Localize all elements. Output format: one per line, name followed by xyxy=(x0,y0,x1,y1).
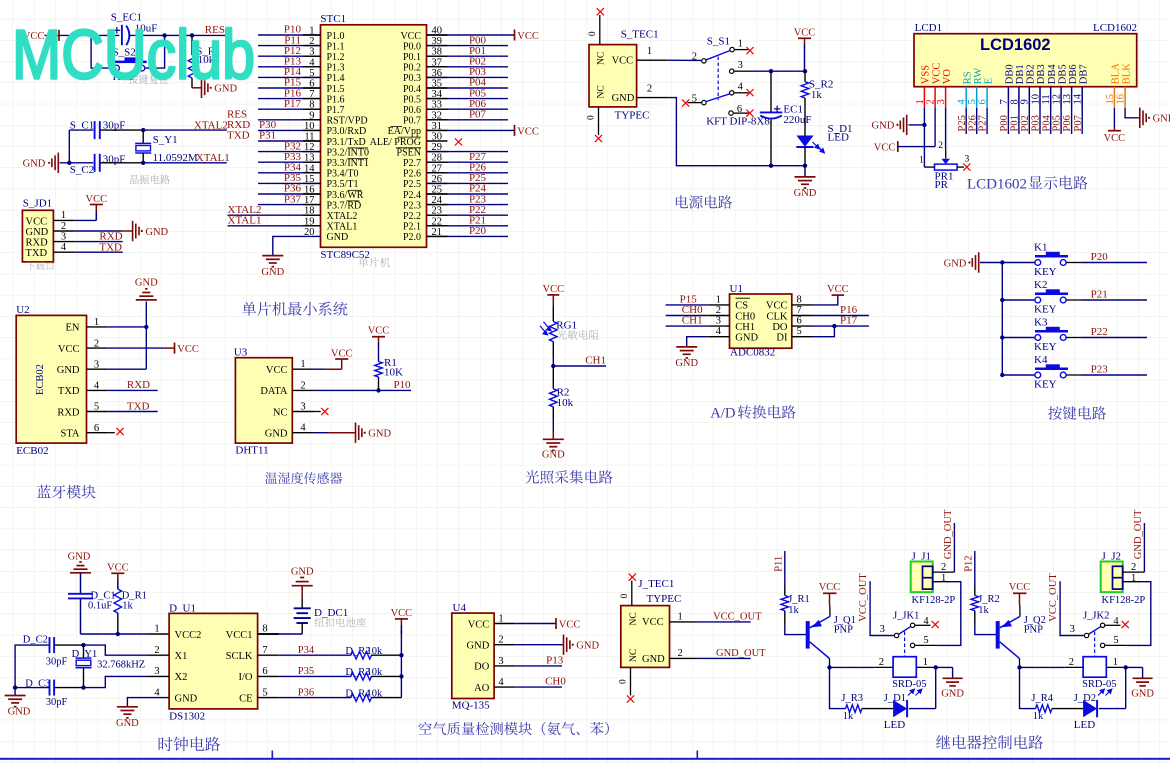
wire xyxy=(1081,108,1083,134)
wire pin3 xyxy=(108,368,147,370)
junction xyxy=(769,164,773,168)
junction xyxy=(1000,373,1004,377)
svg-text:DB1: DB1 xyxy=(1015,64,1026,84)
svg-text:P2.7: P2.7 xyxy=(403,158,421,169)
svg-text:NC: NC xyxy=(597,85,607,98)
svg-text:P05: P05 xyxy=(1052,115,1063,131)
text clock title xyxy=(159,737,220,752)
power port VCC (pullups) xyxy=(395,618,408,620)
svg-text:VCC_OUT: VCC_OUT xyxy=(858,573,869,622)
power port VCC (U2) xyxy=(174,343,176,354)
wire base xyxy=(785,625,806,634)
wire GND_OUT xyxy=(697,657,750,659)
svg-text:X2: X2 xyxy=(175,672,188,683)
svg-text:GND_OUT: GND_OUT xyxy=(716,648,766,659)
wire xyxy=(427,98,509,100)
junction xyxy=(162,33,166,37)
text light title xyxy=(525,470,612,484)
svg-text:VCC: VCC xyxy=(26,216,48,227)
text keys title xyxy=(1048,406,1106,420)
svg-text:BLK: BLK xyxy=(1121,63,1132,84)
svg-text:VCC: VCC xyxy=(1009,582,1031,593)
switch blade 2-1 xyxy=(706,51,730,60)
wire xyxy=(1002,262,1035,264)
svg-text:VCC: VCC xyxy=(827,284,849,295)
pin5 wire xyxy=(1105,644,1127,646)
wire xyxy=(427,193,509,195)
junction xyxy=(1017,665,1021,669)
svg-text:RG1: RG1 xyxy=(556,319,577,331)
power port VCC (backlight) xyxy=(1108,130,1121,132)
wire pin2 to ground xyxy=(515,644,561,646)
wire LED to relay pin1 xyxy=(1099,708,1126,710)
wire xyxy=(258,129,321,131)
wire VSS down xyxy=(923,108,925,167)
svg-text:RS: RS xyxy=(962,71,973,84)
svg-text:GND: GND xyxy=(327,232,349,243)
svg-text:P0.3: P0.3 xyxy=(403,73,421,84)
pin30 no-connect xyxy=(427,140,448,142)
svg-text:J_TEC1: J_TEC1 xyxy=(638,578,674,590)
junction xyxy=(1000,335,1004,339)
junction xyxy=(551,364,555,368)
svg-text:P3.0/RxD: P3.0/RxD xyxy=(327,126,367,137)
svg-text:TXD: TXD xyxy=(227,130,250,142)
pin4 stub xyxy=(734,92,748,94)
svg-text:CLK: CLK xyxy=(767,311,788,322)
svg-text:GND: GND xyxy=(1131,689,1154,700)
svg-text:SRD-05: SRD-05 xyxy=(1082,679,1116,690)
svg-text:TXD: TXD xyxy=(26,248,48,259)
svg-text:VCC: VCC xyxy=(517,126,539,137)
wire pin4 xyxy=(515,686,562,688)
ground (S_JD1) xyxy=(132,221,134,241)
wire xyxy=(258,119,321,121)
wire to LED row xyxy=(830,667,846,708)
junction xyxy=(89,33,93,37)
svg-text:RST/VPD: RST/VPD xyxy=(327,116,368,127)
svg-text:J_R1: J_R1 xyxy=(788,594,810,605)
svg-text:2: 2 xyxy=(716,305,721,316)
svg-text:30pF: 30pF xyxy=(46,657,68,668)
wire X1 xyxy=(148,654,169,656)
svg-text:VCC_OUT: VCC_OUT xyxy=(1048,573,1059,622)
wire VCC_OUT xyxy=(1060,581,1084,635)
svg-text:K1: K1 xyxy=(1034,241,1047,253)
svg-text:NC: NC xyxy=(273,407,288,418)
wire xyxy=(427,45,509,47)
svg-text:CH1: CH1 xyxy=(735,322,755,333)
wire caps to ground xyxy=(15,645,49,688)
wire xyxy=(258,172,321,174)
svg-text:GND: GND xyxy=(265,429,288,440)
svg-text:ECB02: ECB02 xyxy=(16,445,48,457)
wire xyxy=(258,34,321,36)
svg-text:2: 2 xyxy=(1131,562,1136,573)
svg-text:K4: K4 xyxy=(1034,354,1048,366)
svg-text:P3.7/RD: P3.7/RD xyxy=(327,200,362,211)
svg-text:DB0: DB0 xyxy=(1005,64,1016,84)
svg-text:P3.4/T0: P3.4/T0 xyxy=(327,169,359,180)
svg-text:2: 2 xyxy=(1069,657,1074,668)
junction xyxy=(141,128,145,132)
wire xyxy=(258,98,321,100)
svg-text:32.768kHZ: 32.768kHZ xyxy=(97,659,145,670)
svg-text:CH0: CH0 xyxy=(545,676,566,688)
wire VCC_OUT xyxy=(697,621,750,623)
svg-text:VCC: VCC xyxy=(177,344,199,355)
wire to LED row xyxy=(1020,667,1036,708)
wire xyxy=(228,225,321,227)
wire xyxy=(1066,262,1081,264)
wire pin5 xyxy=(108,411,158,413)
svg-text:A/D: A/D xyxy=(710,406,736,422)
power port VCC (pin40) xyxy=(514,30,516,41)
wire base xyxy=(975,625,996,634)
wire xyxy=(1066,337,1081,339)
svg-text:LED: LED xyxy=(828,132,849,144)
junction xyxy=(934,665,938,669)
wire pin4 TXD xyxy=(75,251,123,253)
wire pin2 to VCC xyxy=(108,347,163,349)
svg-text:GND: GND xyxy=(291,566,314,577)
svg-text:P1.3: P1.3 xyxy=(327,63,345,74)
wire xyxy=(258,140,321,142)
svg-text:STC1: STC1 xyxy=(320,13,346,25)
wire xyxy=(427,87,509,89)
svg-text:1: 1 xyxy=(1113,657,1118,668)
svg-text:ECB02: ECB02 xyxy=(35,364,46,395)
svg-text:6: 6 xyxy=(797,316,802,327)
svg-text:2: 2 xyxy=(692,51,697,62)
wire xyxy=(228,214,321,216)
svg-text:3: 3 xyxy=(61,231,66,242)
svg-text:VCC1: VCC1 xyxy=(226,630,253,641)
power port VCC (U3) xyxy=(325,368,342,370)
wire xyxy=(258,76,321,78)
wire pin3 RXD xyxy=(75,241,123,243)
svg-text:MQ-135: MQ-135 xyxy=(452,700,490,712)
wire switch left branch xyxy=(91,35,113,68)
svg-text:3: 3 xyxy=(880,624,885,635)
wire xyxy=(427,214,509,216)
wire collector xyxy=(1019,659,1021,668)
wire xyxy=(258,66,321,68)
svg-text:P17: P17 xyxy=(840,315,858,327)
wire VCC down xyxy=(934,108,936,147)
svg-text:P2.0: P2.0 xyxy=(403,232,421,243)
svg-text:11.0592M: 11.0592M xyxy=(153,152,198,164)
text relay title xyxy=(936,735,1043,749)
svg-text:XTAL2: XTAL2 xyxy=(327,211,358,222)
ground (light) xyxy=(543,438,564,440)
svg-text:LED: LED xyxy=(1074,719,1095,731)
wire pin20 to ground xyxy=(273,236,321,255)
power port VCC (U4) xyxy=(555,618,557,629)
svg-text:VCC: VCC xyxy=(368,326,390,337)
svg-text:NC: NC xyxy=(629,649,639,662)
svg-text:10k: 10k xyxy=(557,397,574,409)
svg-text:P21: P21 xyxy=(1091,289,1108,301)
svg-text:P20: P20 xyxy=(469,225,487,237)
svg-text:1: 1 xyxy=(154,624,159,635)
svg-text:GND: GND xyxy=(794,188,817,199)
wire VCC_OUT xyxy=(870,581,894,635)
ground (U4) xyxy=(563,635,565,655)
svg-text:3: 3 xyxy=(738,60,743,71)
svg-text:5: 5 xyxy=(797,326,802,337)
switch link dashed xyxy=(904,632,906,657)
svg-text:TXD: TXD xyxy=(127,400,150,412)
svg-text:P12: P12 xyxy=(964,555,975,571)
wire S_C2 to XTAL1 xyxy=(100,162,143,164)
svg-text:S_JD1: S_JD1 xyxy=(23,198,52,210)
switch link dashed xyxy=(1094,632,1096,657)
wire pin1 xyxy=(666,304,709,306)
svg-text:TYPEC: TYPEC xyxy=(647,593,682,605)
svg-text:U3: U3 xyxy=(234,346,248,358)
svg-text:P0.1: P0.1 xyxy=(403,52,421,63)
junction xyxy=(803,69,807,73)
svg-text:GND: GND xyxy=(872,121,895,132)
wire xyxy=(427,161,509,163)
junction xyxy=(116,632,120,636)
svg-text:2: 2 xyxy=(941,562,946,573)
svg-text:P2.3: P2.3 xyxy=(403,200,421,211)
svg-text:CE: CE xyxy=(239,693,252,704)
svg-text:VCC: VCC xyxy=(612,56,634,67)
power port VCC (D_R1) xyxy=(111,572,124,574)
svg-text:GND: GND xyxy=(1153,114,1170,125)
no-erc bottom xyxy=(630,667,632,695)
wire BLK to ground xyxy=(1125,108,1138,118)
wire pin5 xyxy=(279,697,351,699)
svg-text:P02: P02 xyxy=(1020,115,1031,131)
svg-text:GND: GND xyxy=(612,93,635,104)
svg-text:DS1302: DS1302 xyxy=(169,710,205,722)
svg-text:P26: P26 xyxy=(967,115,978,131)
wire xyxy=(258,204,321,206)
wire pin2 to ground rail xyxy=(667,98,805,166)
svg-text:KEY: KEY xyxy=(1034,304,1057,316)
svg-text:GND: GND xyxy=(261,267,284,278)
junction xyxy=(769,69,773,73)
junction xyxy=(399,653,403,657)
ground (reset) xyxy=(201,78,203,98)
svg-text:30pF: 30pF xyxy=(46,697,68,708)
svg-text:1: 1 xyxy=(61,210,66,221)
wire pin3 xyxy=(515,665,562,667)
junction xyxy=(399,674,403,678)
svg-text:KEY: KEY xyxy=(1034,266,1057,278)
svg-text:DB7: DB7 xyxy=(1078,64,1089,84)
power port VCC (light) xyxy=(547,294,559,296)
wire xyxy=(1002,337,1035,339)
switch blade xyxy=(1089,627,1101,634)
svg-text:1: 1 xyxy=(919,155,924,165)
svg-text:STA: STA xyxy=(61,429,80,440)
wire GND_OUT up xyxy=(1143,523,1145,572)
svg-text:DB3: DB3 xyxy=(1036,64,1047,84)
svg-text:STC89C52: STC89C52 xyxy=(320,249,370,261)
wire pin3 xyxy=(666,325,709,327)
ground (supply) xyxy=(804,166,806,177)
svg-text:S_TEC1: S_TEC1 xyxy=(621,29,659,41)
pin5 wire xyxy=(915,644,937,646)
svg-text:7: 7 xyxy=(797,305,802,316)
wire xyxy=(986,108,988,134)
sheet border bottom xyxy=(0,758,1170,760)
junction xyxy=(144,325,148,329)
svg-text:GND: GND xyxy=(675,358,698,369)
wire pin4 to ground xyxy=(314,432,328,434)
wire xyxy=(258,161,321,163)
wire xyxy=(427,225,509,227)
svg-text:EA/Vpp: EA/Vpp xyxy=(388,126,421,137)
text reset label xyxy=(128,75,168,85)
wire to S_C1 xyxy=(69,129,93,131)
svg-text:10K: 10K xyxy=(384,367,403,379)
wire xyxy=(258,182,321,184)
ground (U3) xyxy=(355,423,357,443)
svg-text:LED: LED xyxy=(884,719,905,731)
svg-text:P0.4: P0.4 xyxy=(403,84,421,95)
svg-text:DB5: DB5 xyxy=(1057,64,1068,84)
svg-text:P3.5/T1: P3.5/T1 xyxy=(327,179,359,190)
text DHT11 title xyxy=(265,472,342,484)
wire switch right branch xyxy=(145,35,164,68)
svg-text:GND: GND xyxy=(116,718,139,729)
pin4 stub xyxy=(915,624,930,626)
wire xyxy=(1071,108,1073,134)
svg-text:RXD: RXD xyxy=(127,379,150,391)
wire to R2 xyxy=(552,366,554,389)
svg-text:K3: K3 xyxy=(1034,316,1048,328)
wire xyxy=(1050,108,1052,134)
junction xyxy=(67,161,71,165)
wire VO to wiper xyxy=(945,108,947,149)
svg-text:J_R4: J_R4 xyxy=(1031,693,1053,704)
svg-text:J_JK2: J_JK2 xyxy=(1083,611,1109,622)
power port VCC (S_JD1) xyxy=(95,205,97,212)
junction xyxy=(832,324,836,328)
wire xyxy=(1002,299,1035,301)
svg-text:DHT11: DHT11 xyxy=(235,445,268,457)
wire xyxy=(1002,374,1035,376)
power port VCC (R1) xyxy=(372,336,385,338)
svg-text:DB4: DB4 xyxy=(1047,64,1058,85)
svg-text:P22: P22 xyxy=(1091,326,1108,338)
wire GND_OUT up xyxy=(953,523,955,572)
wire VCC to S_EC1 xyxy=(59,34,119,36)
svg-text:5: 5 xyxy=(923,635,928,646)
wire xyxy=(427,119,509,121)
wire gnd to S_C2 xyxy=(60,162,94,164)
svg-text:4: 4 xyxy=(738,82,744,93)
svg-text:GND: GND xyxy=(368,429,391,440)
svg-text:4: 4 xyxy=(61,242,67,253)
svg-text:1k: 1k xyxy=(122,600,133,611)
svg-text:DO: DO xyxy=(474,662,490,673)
svg-text:PNP: PNP xyxy=(834,624,853,635)
wire pin1 to VCC xyxy=(75,219,97,221)
svg-text:AO: AO xyxy=(474,683,490,694)
wire pin6 xyxy=(812,325,869,327)
svg-text:1k: 1k xyxy=(811,89,823,101)
svg-text:VCC: VCC xyxy=(517,31,539,42)
wire pin4 to ground xyxy=(687,337,709,347)
svg-text:P11: P11 xyxy=(774,556,785,572)
wire pin31 VCC xyxy=(427,129,515,131)
svg-text:P01: P01 xyxy=(1010,115,1021,131)
ground (D_U1) xyxy=(117,706,138,708)
junction xyxy=(922,123,926,127)
text download port label xyxy=(26,261,53,270)
svg-text:E: E xyxy=(983,78,994,84)
svg-text:LCD1602: LCD1602 xyxy=(1093,22,1137,34)
svg-text:1k: 1k xyxy=(843,711,854,722)
svg-text:2: 2 xyxy=(879,657,884,668)
svg-text:GND: GND xyxy=(175,693,198,704)
wire xyxy=(1039,108,1041,134)
svg-text:P1.2: P1.2 xyxy=(327,52,345,63)
svg-text:GND: GND xyxy=(68,551,91,562)
svg-text:P00: P00 xyxy=(999,115,1010,131)
svg-text:P1.4: P1.4 xyxy=(327,73,345,84)
svg-text:TXD: TXD xyxy=(99,241,122,253)
junction xyxy=(190,33,194,37)
wire X2 xyxy=(148,675,169,677)
svg-text:3: 3 xyxy=(1070,624,1075,635)
wire xyxy=(258,87,321,89)
svg-text:7: 7 xyxy=(262,645,267,656)
svg-text:P36: P36 xyxy=(298,687,314,698)
svg-text:8: 8 xyxy=(262,624,267,635)
wire xyxy=(1018,108,1020,134)
svg-text:VCC: VCC xyxy=(107,562,129,573)
wire pin8 xyxy=(258,633,303,635)
wire pin7 xyxy=(279,654,351,656)
svg-text:P2.6: P2.6 xyxy=(403,169,421,180)
svg-text:GND: GND xyxy=(23,158,46,169)
ground (backlight) xyxy=(1139,108,1141,128)
wire collector xyxy=(829,659,831,668)
svg-text:U2: U2 xyxy=(16,304,29,316)
svg-text:DB6: DB6 xyxy=(1068,64,1079,84)
wire xyxy=(258,151,321,153)
svg-text:XTAL1: XTAL1 xyxy=(196,152,230,164)
svg-text:GND: GND xyxy=(57,365,80,376)
svg-text:K2: K2 xyxy=(1034,279,1047,291)
svg-text:1: 1 xyxy=(716,294,721,305)
wire xyxy=(427,172,509,174)
svg-text:LCD1602: LCD1602 xyxy=(980,36,1051,54)
svg-text:SRD-05: SRD-05 xyxy=(892,679,926,690)
svg-text:VCC: VCC xyxy=(543,284,565,295)
svg-text:P1.1: P1.1 xyxy=(327,41,345,52)
svg-text:P23: P23 xyxy=(1091,364,1109,376)
svg-text:2: 2 xyxy=(678,648,683,659)
svg-text:VCC: VCC xyxy=(559,619,581,630)
switch blade xyxy=(899,627,911,634)
wire CH1 xyxy=(553,365,606,367)
svg-text:DI: DI xyxy=(776,333,788,344)
svg-text:J_R2: J_R2 xyxy=(978,594,1000,605)
svg-text:3: 3 xyxy=(965,155,970,165)
svg-text:GND: GND xyxy=(467,641,490,652)
svg-text:KF128-2P: KF128-2P xyxy=(1102,595,1146,606)
svg-text:P0.7: P0.7 xyxy=(403,116,421,127)
